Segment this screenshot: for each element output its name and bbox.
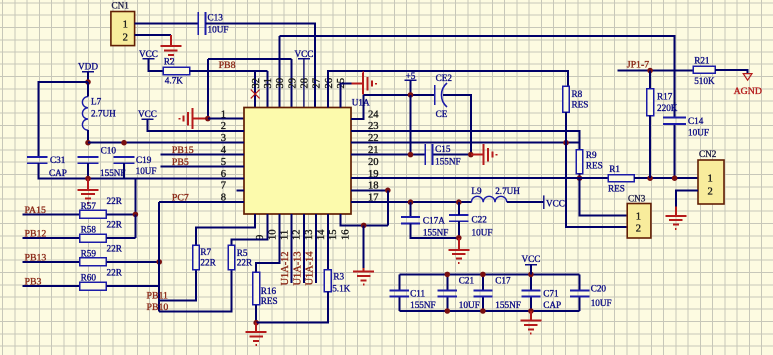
svg-text:C21: C21 (459, 276, 475, 286)
wire R8 bottom (565, 112, 567, 143)
svg-text:R21: R21 (694, 56, 710, 66)
wire +5 rail (364, 94, 435, 96)
svg-text:R5: R5 (237, 248, 248, 258)
wire R57-R58 link (134, 214, 136, 238)
svg-text:31: 31 (263, 78, 274, 89)
wire VCC to pin2 (148, 119, 245, 130)
junction top rail x447 (445, 272, 451, 278)
junction bottom rail x530 (528, 308, 534, 314)
capacitor C17A (401, 217, 420, 223)
junction pin18 (385, 188, 391, 194)
wire R16-R3 bottom (256, 292, 328, 323)
svg-text:20: 20 (368, 157, 379, 168)
capacitor C11 (390, 291, 409, 297)
svg-text:1: 1 (708, 174, 713, 185)
svg-text:22R: 22R (107, 220, 123, 230)
power VCC pin28 (294, 49, 313, 108)
capacitor C31 (27, 157, 47, 163)
wire ground rail to R57 (134, 179, 136, 215)
resistor R17 (647, 89, 654, 116)
wire pin21b (432, 154, 471, 156)
svg-text:CE2: CE2 (436, 73, 453, 83)
wire R8bot to CN3-2 (566, 143, 627, 227)
wire C17 top (482, 274, 484, 290)
svg-text:CAP: CAP (49, 168, 67, 178)
pin 12 stub (291, 214, 293, 283)
wire R57 right (106, 213, 135, 215)
junction VDD (85, 79, 91, 85)
wire C71 top (530, 274, 532, 290)
svg-text:CN3: CN3 (628, 193, 646, 203)
junction C15 left (408, 152, 414, 158)
svg-text:VCC: VCC (294, 49, 313, 59)
svg-text:R17: R17 (657, 91, 673, 101)
junction R57 (133, 212, 139, 218)
svg-text:L7: L7 (91, 96, 102, 106)
ground C22 (448, 238, 469, 263)
junction C17A top (408, 199, 414, 205)
red link pin25 gnd (362, 71, 364, 95)
wire CE2 right (443, 95, 471, 155)
wire pin11 to R16 (256, 214, 279, 272)
power +5 (405, 71, 417, 81)
power VCC cap bank (521, 254, 540, 265)
wire PB8 horizontal (208, 58, 292, 60)
wire C17A bottom (411, 223, 459, 237)
svg-text:4.7K: 4.7K (165, 76, 183, 86)
capacitor C14 (663, 118, 686, 124)
wire cap bank top rail (399, 273, 579, 275)
wire PB12 (23, 237, 80, 239)
wire pin19 to R1 (351, 177, 608, 179)
svg-text:+5: +5 (406, 71, 416, 81)
svg-text:26: 26 (324, 78, 335, 89)
wire R60 right (106, 285, 159, 287)
svg-text:1: 1 (221, 109, 226, 120)
svg-text:22R: 22R (107, 268, 123, 278)
svg-text:22R: 22R (200, 258, 216, 268)
junction bottom rail x447 (445, 308, 451, 314)
svg-text:VCC: VCC (521, 254, 540, 264)
svg-text:U1A-14: U1A-14 (305, 251, 316, 286)
svg-text:2: 2 (123, 32, 128, 43)
wire pin18 drop (387, 190, 389, 225)
connector CN1 (111, 1, 135, 46)
svg-text:155NF: 155NF (423, 227, 449, 237)
svg-text:VDD: VDD (78, 62, 98, 72)
wire C11 bottom (398, 297, 400, 311)
svg-text:22R: 22R (237, 258, 253, 268)
junction R59 (156, 259, 162, 265)
svg-text:CN2: CN2 (699, 149, 717, 159)
capacitor C17 (473, 291, 492, 297)
wire PA15 (23, 213, 80, 215)
wire L9 to VCC (507, 201, 544, 203)
svg-text:C10: C10 (101, 146, 117, 156)
wire R59 right (106, 261, 159, 263)
wire pin30 riser (279, 36, 281, 107)
wire PB8 vertical (207, 59, 209, 119)
ground pin21 (471, 144, 497, 165)
junction bottom rail x482 (480, 308, 486, 314)
svg-text:CAP: CAP (543, 300, 561, 310)
svg-text:27: 27 (312, 78, 323, 89)
svg-text:155NF: 155NF (410, 300, 436, 310)
ground pin25 (351, 73, 376, 94)
no-ERC X mark pin32 (251, 90, 260, 99)
wire R58 right (106, 237, 135, 239)
inductor L7 (82, 97, 88, 131)
resistor R59 (80, 258, 107, 266)
svg-text:510K: 510K (694, 76, 715, 86)
ground CN1-2 (160, 35, 181, 59)
junction top rail x530 (528, 272, 534, 278)
capacitor C71 (521, 291, 540, 297)
pin 7 stub (237, 189, 245, 191)
wire pin24 riser (351, 95, 364, 119)
svg-text:R16: R16 (261, 286, 277, 296)
wire C71 bottom (530, 297, 532, 311)
ground pin1 left (179, 108, 207, 129)
wire pin10 to R5 (232, 214, 268, 245)
power VCC L9 (544, 195, 565, 209)
pin 14 stub (315, 214, 317, 283)
svg-text:C20: C20 (591, 284, 607, 294)
svg-text:29: 29 (287, 78, 298, 89)
wire C22 bottom (458, 221, 460, 238)
junction R16 gnd (253, 320, 259, 326)
capacitor C10 (78, 157, 99, 163)
svg-text:22R: 22R (107, 196, 123, 206)
svg-text:C13: C13 (208, 13, 224, 23)
svg-text:C15: C15 (435, 144, 451, 154)
capacitor C19 (114, 157, 135, 163)
op-amp U1A body (244, 108, 351, 215)
connector CN2 (698, 149, 724, 204)
svg-text:2.7UH: 2.7UH (91, 108, 116, 118)
svg-text:R7: R7 (200, 247, 211, 257)
resistor R9 (576, 150, 583, 174)
wire CN1-1 to C13 (135, 22, 199, 24)
svg-text:2: 2 (636, 223, 641, 234)
ground cap bank (520, 311, 541, 334)
svg-text:5.1K: 5.1K (332, 284, 350, 294)
svg-text:C71: C71 (543, 289, 559, 299)
wire R17 top (649, 71, 651, 89)
svg-text:RES: RES (608, 184, 625, 194)
capacitor C13 (198, 12, 205, 35)
wire R9 bottom (579, 174, 581, 179)
capacitor C15 (425, 144, 432, 165)
connector CN3 (627, 193, 651, 238)
svg-text:C22: C22 (472, 215, 488, 225)
resistor R60 (80, 282, 107, 290)
junction C15 right (468, 152, 474, 158)
wire R1 to CN2-1 (634, 177, 698, 179)
ground pin16 (353, 268, 374, 285)
svg-text:32: 32 (251, 78, 262, 89)
svg-text:R58: R58 (81, 225, 97, 235)
svg-text:R57: R57 (81, 201, 97, 211)
svg-text:U1A-12: U1A-12 (280, 251, 291, 285)
wire C20 bottom (579, 297, 581, 311)
svg-text:C31: C31 (50, 155, 66, 165)
svg-text:24: 24 (368, 109, 379, 120)
junction R8 bottom (563, 140, 569, 146)
svg-text:VCC: VCC (138, 109, 157, 119)
wire PC7 vertical (158, 202, 160, 311)
wire PB13 (23, 261, 80, 263)
junction C14 bottom (672, 175, 678, 181)
wire pin26 to R8 (328, 71, 568, 107)
svg-text:13: 13 (304, 229, 315, 240)
svg-text:C17: C17 (495, 276, 511, 286)
ground R16 (246, 323, 267, 346)
ground CN2 (665, 207, 686, 229)
wire pin31 drop (266, 71, 268, 108)
svg-text:155NF: 155NF (495, 300, 521, 310)
wire L7 bottom (87, 130, 89, 143)
svg-text:CN1: CN1 (112, 1, 130, 11)
wire PB5 pin5 (161, 166, 245, 168)
svg-text:VCC: VCC (546, 199, 565, 209)
svg-text:C17A: C17A (423, 215, 445, 225)
resistor R2 (163, 67, 190, 74)
svg-text:10: 10 (267, 229, 278, 240)
wire C21 top (446, 274, 448, 290)
wire +5 stem (410, 80, 412, 95)
resistor R7 (193, 245, 200, 269)
wire net pin3 (88, 142, 244, 144)
resistor R5 (228, 245, 235, 269)
svg-text:14: 14 (316, 229, 327, 240)
capacitor C21 (438, 291, 457, 297)
resistor R21 (693, 66, 715, 73)
svg-text:R60: R60 (81, 273, 97, 283)
wire pin21 (351, 154, 425, 156)
junction R9 bottom (577, 175, 583, 181)
wire pin22 (351, 142, 580, 144)
svg-text:AGND: AGND (734, 86, 762, 97)
wire VDD to C31 (39, 82, 88, 157)
power VCC R2 (139, 49, 158, 59)
wire C31 bottom rail (39, 163, 244, 178)
svg-text:R8: R8 (572, 89, 583, 99)
junction pin16 gnd (361, 223, 367, 229)
wire pin29 drop (291, 59, 293, 108)
wire VDD stem (87, 72, 89, 82)
resistor R58 (80, 234, 107, 242)
wire R17 bottom (649, 116, 651, 179)
svg-text:L9: L9 (471, 186, 482, 196)
svg-text:10UF: 10UF (208, 25, 229, 35)
svg-text:R3: R3 (333, 272, 344, 282)
svg-text:155NF: 155NF (100, 168, 126, 178)
wire C20 top (579, 274, 581, 290)
wire pin9 to R7 (196, 214, 255, 245)
svg-text:28: 28 (299, 78, 310, 89)
junction C22 gnd (456, 235, 462, 241)
svg-text:12: 12 (292, 229, 303, 240)
wire PB15 pin4 (161, 154, 245, 156)
svg-text:22R: 22R (107, 243, 123, 253)
svg-text:10UF: 10UF (688, 127, 709, 137)
wire pin16 gnd drop (363, 225, 365, 268)
wire C22 top drop (458, 202, 460, 215)
svg-text:VCC: VCC (139, 49, 158, 59)
wire C11 top (398, 274, 400, 290)
pin 13 stub (303, 214, 305, 283)
svg-text:RES: RES (586, 161, 603, 171)
svg-text:JP1-7: JP1-7 (627, 60, 649, 71)
svg-text:10UF: 10UF (591, 298, 612, 308)
wire PB11 (159, 270, 196, 301)
svg-text:1: 1 (123, 20, 128, 31)
svg-text:15: 15 (328, 229, 339, 240)
svg-text:C11: C11 (410, 289, 425, 299)
wire L7 top (87, 82, 89, 97)
wire R16 bottom (255, 305, 257, 323)
svg-text:155NF: 155NF (435, 157, 461, 167)
wire C17 bottom (482, 297, 484, 311)
svg-text:10UF: 10UF (136, 166, 157, 176)
svg-text:RES: RES (572, 100, 589, 110)
svg-text:11: 11 (280, 230, 291, 240)
wire C13 to pin27 (205, 23, 315, 107)
inductor L9 (471, 196, 506, 202)
power AGND symbol (743, 74, 752, 81)
wire VCC stem cap bank (530, 265, 532, 275)
svg-text:U1A: U1A (352, 97, 370, 107)
capacitor CE2 (435, 83, 447, 107)
wire pin15 to R3 (327, 214, 329, 270)
junction C10 ground (85, 176, 91, 182)
svg-text:16: 16 (340, 229, 351, 240)
junction R17 bottom (647, 175, 653, 181)
wire cap bank bottom rail (399, 310, 579, 312)
svg-text:C19: C19 (136, 155, 152, 165)
svg-text:2.7UH: 2.7UH (495, 186, 520, 196)
svg-text:R2: R2 (164, 57, 175, 67)
wire PB3 (23, 285, 80, 287)
junction L7/C10 (85, 140, 91, 146)
svg-text:10UF: 10UF (459, 300, 480, 310)
svg-text:C14: C14 (688, 116, 704, 126)
wire JP1-7 (617, 70, 693, 72)
svg-text:7: 7 (221, 181, 226, 192)
wire pin23 to R9 (351, 131, 580, 150)
wire R21 to AGND (715, 70, 747, 74)
svg-text:R59: R59 (81, 248, 97, 258)
wire +5 down to pin21 (410, 95, 412, 155)
power VDD (78, 62, 98, 72)
wire C14 bottom drop (674, 124, 676, 178)
capacitor C20 (570, 291, 589, 297)
resistor R3 (324, 270, 331, 292)
resistor R8 (563, 86, 570, 112)
svg-text:PB8: PB8 (219, 60, 236, 71)
wire CN1-2 (135, 34, 171, 36)
svg-text:R9: R9 (586, 150, 597, 160)
wire pin17 to L9 (351, 201, 471, 203)
wire C17A top drop (410, 202, 412, 217)
ground C10 (78, 179, 99, 203)
svg-text:U1A-13: U1A-13 (292, 251, 303, 285)
wire top rail to C14 (280, 36, 675, 117)
wire C10 bottom (87, 163, 89, 178)
wire pin25 (340, 84, 351, 108)
svg-text:220K: 220K (657, 103, 678, 113)
junction C19 top (121, 140, 127, 146)
wire pin32 drop (254, 71, 256, 108)
wire C19 bottom (123, 163, 125, 178)
power VCC pin2 (138, 109, 157, 120)
capacitor C22 (449, 215, 468, 221)
wire pin1 (208, 118, 244, 120)
resistor R57 (80, 210, 107, 218)
wire pin16 (340, 214, 387, 225)
wire VCC to R2 (148, 59, 163, 71)
junction +5 (408, 92, 414, 98)
svg-text:RES: RES (261, 296, 278, 306)
junction C22 top (456, 199, 462, 205)
wire PB10 (159, 270, 231, 312)
wire CN2-2 (676, 190, 698, 206)
svg-text:10UF: 10UF (472, 227, 493, 237)
svg-text:1: 1 (636, 212, 641, 223)
wire PC7 pin8 (159, 201, 244, 203)
svg-text:30: 30 (275, 78, 286, 89)
resistor R1 (608, 175, 634, 182)
wire C21 bottom (446, 297, 448, 311)
junction top rail x482 (480, 272, 486, 278)
svg-text:2: 2 (708, 186, 713, 197)
wire pin18 (351, 189, 388, 191)
junction pin1 (205, 116, 211, 122)
junction JP1-7 (647, 68, 653, 74)
svg-text:R1: R1 (609, 164, 620, 174)
wire R2 to pins31-32 (190, 70, 268, 72)
wire R9 to CN3-1 (580, 178, 628, 215)
resistor R16 (253, 272, 260, 304)
svg-text:CE: CE (436, 109, 448, 119)
